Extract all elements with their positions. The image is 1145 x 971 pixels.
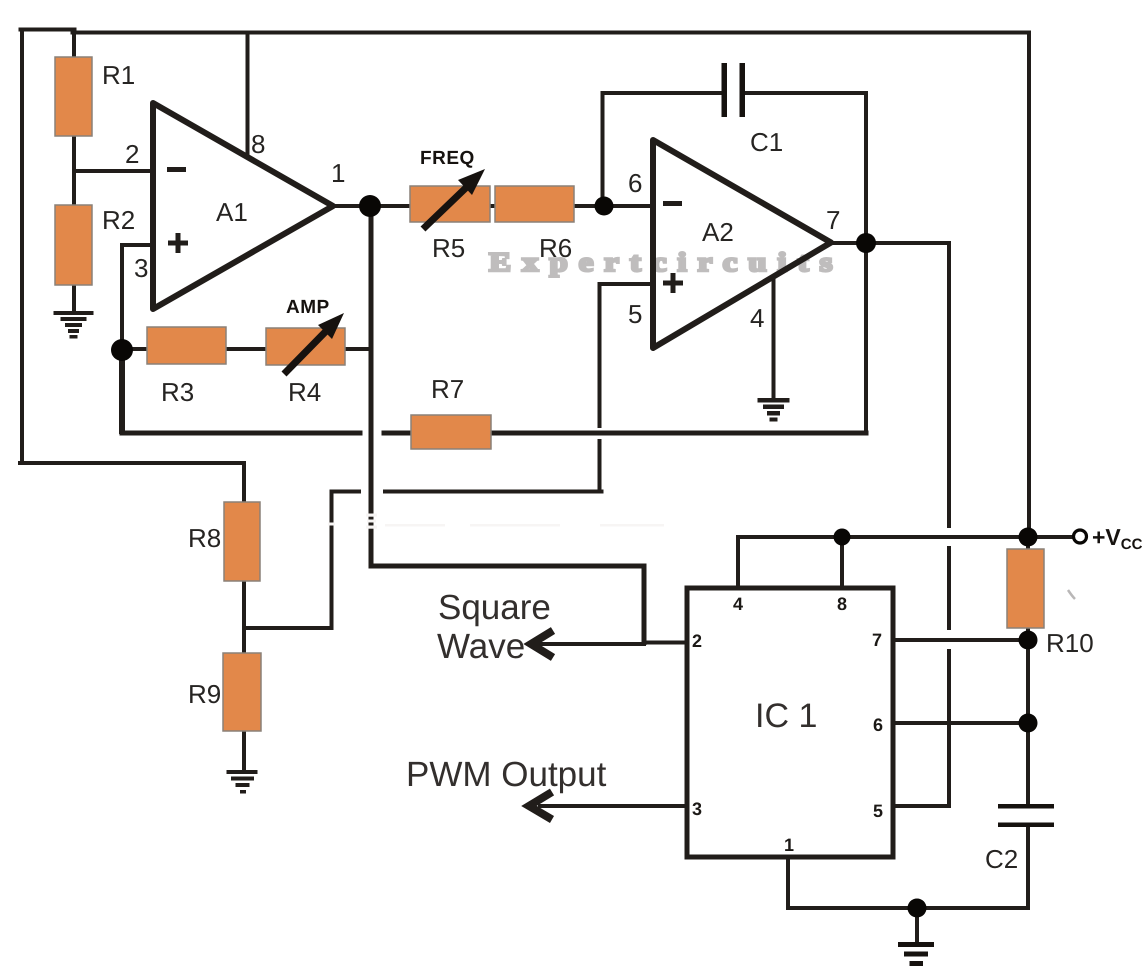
svg-text:AMP: AMP bbox=[286, 297, 330, 318]
node R10 bottom / pin7 bbox=[1019, 631, 1038, 650]
svg-text:2: 2 bbox=[125, 139, 139, 169]
node pin6 bbox=[1019, 714, 1038, 733]
svg-text:R7: R7 bbox=[431, 374, 464, 404]
svg-text:Square: Square bbox=[438, 588, 551, 627]
svg-text:R6: R6 bbox=[539, 233, 572, 263]
svg-text:A2: A2 bbox=[702, 217, 734, 247]
ground below R2 bbox=[54, 311, 94, 339]
capacitor C2 bbox=[998, 804, 1054, 827]
wire C2 to bottom rail bbox=[1026, 826, 1030, 908]
node A2 output bbox=[856, 233, 876, 253]
A2 minus input sign bbox=[663, 201, 682, 206]
svg-text:4: 4 bbox=[750, 303, 764, 333]
wire A1 pin 8 bbox=[246, 33, 250, 158]
wire R5 to R6 bbox=[490, 204, 495, 208]
watermark faint lower (nicks on wires) bbox=[328, 514, 664, 529]
R4 pot arrow bbox=[284, 313, 344, 374]
svg-text:2: 2 bbox=[692, 631, 702, 651]
svg-text:8: 8 bbox=[251, 129, 265, 159]
wire A1 output to R5 bbox=[333, 204, 410, 208]
wire C1 right plate down to feedback bbox=[745, 93, 867, 433]
A2 plus input sign bbox=[663, 273, 683, 293]
svg-text:4: 4 bbox=[733, 594, 743, 614]
wire R1 to R2 bbox=[72, 136, 76, 205]
svg-text:5: 5 bbox=[628, 299, 642, 329]
wire +Vcc rail bbox=[738, 535, 1074, 539]
wire IC pin 8 stub bbox=[840, 537, 844, 588]
node rail / R10 top bbox=[1019, 528, 1038, 547]
svg-text:8: 8 bbox=[837, 594, 847, 614]
wire feedback bottom run bbox=[122, 431, 866, 436]
wire R10 down to C2 bbox=[1026, 628, 1030, 804]
svg-text:R2: R2 bbox=[102, 205, 135, 235]
svg-text:R4: R4 bbox=[288, 377, 321, 407]
resistor R2 bbox=[55, 205, 92, 285]
op-amp A2 body fill bbox=[653, 140, 831, 348]
wire R1 top stub bbox=[72, 30, 76, 57]
svg-text:PWM Output: PWM Output bbox=[406, 755, 607, 794]
wire rail to R10 bbox=[1026, 537, 1030, 549]
wire top border bbox=[73, 31, 1030, 35]
+Vcc terminal circle bbox=[1074, 530, 1087, 543]
wire A2 pin 5 bbox=[600, 284, 654, 492]
svg-text:A1: A1 bbox=[216, 197, 248, 227]
node bottom ground bbox=[908, 899, 927, 918]
svg-text:1: 1 bbox=[331, 158, 345, 188]
wire R3 row bbox=[122, 347, 371, 351]
svg-text:R1: R1 bbox=[102, 60, 135, 90]
resistor R10 bbox=[1007, 549, 1044, 628]
wire node to C1 left plate bbox=[603, 93, 722, 206]
wire IC pin 6 bbox=[893, 721, 1028, 725]
wire left branch to R8 bbox=[20, 463, 244, 502]
svg-text:7: 7 bbox=[826, 205, 840, 235]
wire A2 pin 4 to ground bbox=[772, 277, 776, 398]
R5 pot arrow bbox=[423, 169, 485, 229]
svg-text:FREQ: FREQ bbox=[420, 148, 475, 169]
svg-text:3: 3 bbox=[134, 253, 148, 283]
wire junction down to feedback bbox=[119, 350, 125, 431]
node R6 / A2 pin6 bbox=[595, 197, 614, 216]
svg-text:R5: R5 bbox=[432, 233, 465, 263]
node A1 plus junction bbox=[111, 339, 133, 361]
wire R6 to A2 pin 6 bbox=[574, 204, 653, 208]
wire IC pin 1 to bottom rail bbox=[788, 857, 1028, 908]
wire IC pin 4 stub bbox=[736, 537, 740, 588]
resistor R7 bbox=[411, 415, 491, 449]
resistor R1 bbox=[55, 57, 92, 136]
resistor R8 bbox=[224, 502, 260, 581]
wire IC pin 3 / PWM arrow shaft bbox=[540, 804, 687, 808]
resistor R3 bbox=[147, 327, 226, 364]
wire A1 output down and right bbox=[371, 206, 644, 643]
svg-text:R3: R3 bbox=[161, 377, 194, 407]
svg-text:R10: R10 bbox=[1046, 628, 1094, 658]
svg-text:IC 1: IC 1 bbox=[755, 697, 817, 735]
wire bottom node to ground bbox=[915, 908, 919, 942]
svg-text:R8: R8 bbox=[188, 523, 221, 553]
wire square wave arrow shaft bbox=[536, 642, 644, 646]
wire R8 to R9 bbox=[242, 581, 246, 653]
wire top border left piece bbox=[21, 28, 75, 32]
square wave arrowhead bbox=[531, 631, 553, 658]
svg-text:C1: C1 bbox=[750, 127, 783, 157]
PWM arrowhead bbox=[529, 792, 552, 820]
op-amp A2 outline bbox=[653, 140, 831, 348]
ground below IC bottom rail bbox=[898, 942, 934, 966]
node A1 output bbox=[359, 195, 381, 217]
ground below R9 bbox=[227, 770, 258, 794]
wire left border bbox=[20, 30, 24, 464]
wire right border down to +Vcc bbox=[1027, 33, 1031, 538]
node IC pin8 on rail bbox=[834, 529, 851, 546]
capacitor C1 bbox=[722, 63, 746, 117]
svg-text:1: 1 bbox=[784, 835, 794, 855]
A1 plus input sign bbox=[168, 233, 188, 253]
resistor R6 bbox=[495, 186, 574, 222]
resistor R9 bbox=[223, 653, 261, 731]
op-amp A1 bbox=[153, 103, 333, 309]
svg-text:C2: C2 bbox=[985, 844, 1018, 874]
wire A2 out down to IC pin 5 bbox=[893, 243, 949, 806]
wire A1 pin 2 input bbox=[74, 169, 153, 173]
wire A1 pin 3 bbox=[122, 245, 153, 350]
wire IC pin 7 bbox=[893, 638, 1028, 642]
wire R2 to ground bbox=[72, 285, 76, 313]
svg-text:R9: R9 bbox=[188, 679, 221, 709]
wire A2 output bbox=[831, 241, 949, 245]
wire R9 to ground bbox=[242, 731, 246, 770]
svg-text:5: 5 bbox=[873, 801, 883, 821]
svg-text:3: 3 bbox=[692, 799, 702, 819]
wire pin5 run to divider bbox=[244, 492, 602, 629]
wire IC pin 2 bbox=[644, 641, 687, 645]
svg-text:7: 7 bbox=[872, 630, 882, 650]
svg-text:6: 6 bbox=[628, 168, 642, 198]
svg-text:6: 6 bbox=[873, 715, 883, 735]
A1 minus input sign bbox=[167, 167, 186, 172]
ground below A2 pin 4 bbox=[758, 398, 790, 422]
svg-text:Wave: Wave bbox=[437, 627, 525, 666]
resistor R5 (pot) bbox=[410, 186, 490, 222]
stray watermark mark near R10 bbox=[1068, 590, 1075, 599]
resistor R4 (pot) bbox=[266, 328, 345, 365]
IC U1 box bbox=[687, 588, 893, 857]
